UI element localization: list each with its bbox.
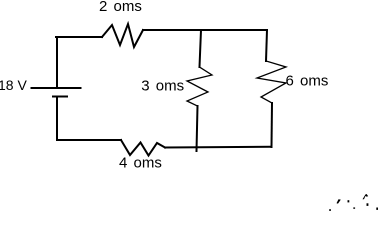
signature scribble mark bottom-right [329, 194, 378, 211]
wire: bottom horizontal right segment [165, 146, 272, 149]
svg-text:3 oms: 3 oms [141, 78, 184, 95]
svg-text:2 oms: 2 oms [99, 0, 142, 15]
resistor R3 (6 oms zigzag) [257, 61, 286, 103]
wire: middle branch top vertical [200, 30, 202, 67]
svg-text:18 V: 18 V [0, 77, 27, 93]
resistor R1 (2 oms zigzag) [102, 24, 143, 47]
wire: left bottom vertical to battery [56, 97, 58, 140]
svg-text:6 oms: 6 oms [286, 73, 329, 90]
wire: right branch bottom vertical [271, 103, 274, 147]
wire: right branch top vertical [266, 30, 267, 61]
battery B1 short plate [53, 96, 67, 98]
resistor R4 (4 oms zigzag) [121, 140, 165, 156]
wire: left vertical from top corner to battery [56, 37, 58, 87]
wire: bottom horizontal left segment [57, 139, 121, 141]
battery B1 long plate [32, 87, 81, 89]
wire: top-left horizontal segment [56, 36, 102, 38]
resistor R2 (3 oms zigzag) [187, 67, 212, 106]
svg-text:4 oms: 4 oms [119, 155, 162, 172]
wire: top horizontal right segment [143, 29, 267, 31]
wire: middle branch bottom vertical (crosses bottom wire) [197, 106, 198, 151]
